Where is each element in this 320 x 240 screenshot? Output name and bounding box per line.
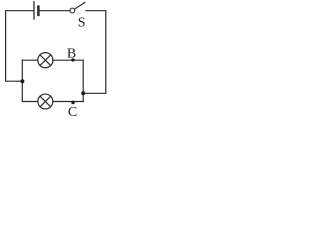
svg-text:B: B: [67, 47, 76, 62]
svg-text:C: C: [68, 105, 77, 120]
svg-text:S: S: [78, 16, 86, 31]
